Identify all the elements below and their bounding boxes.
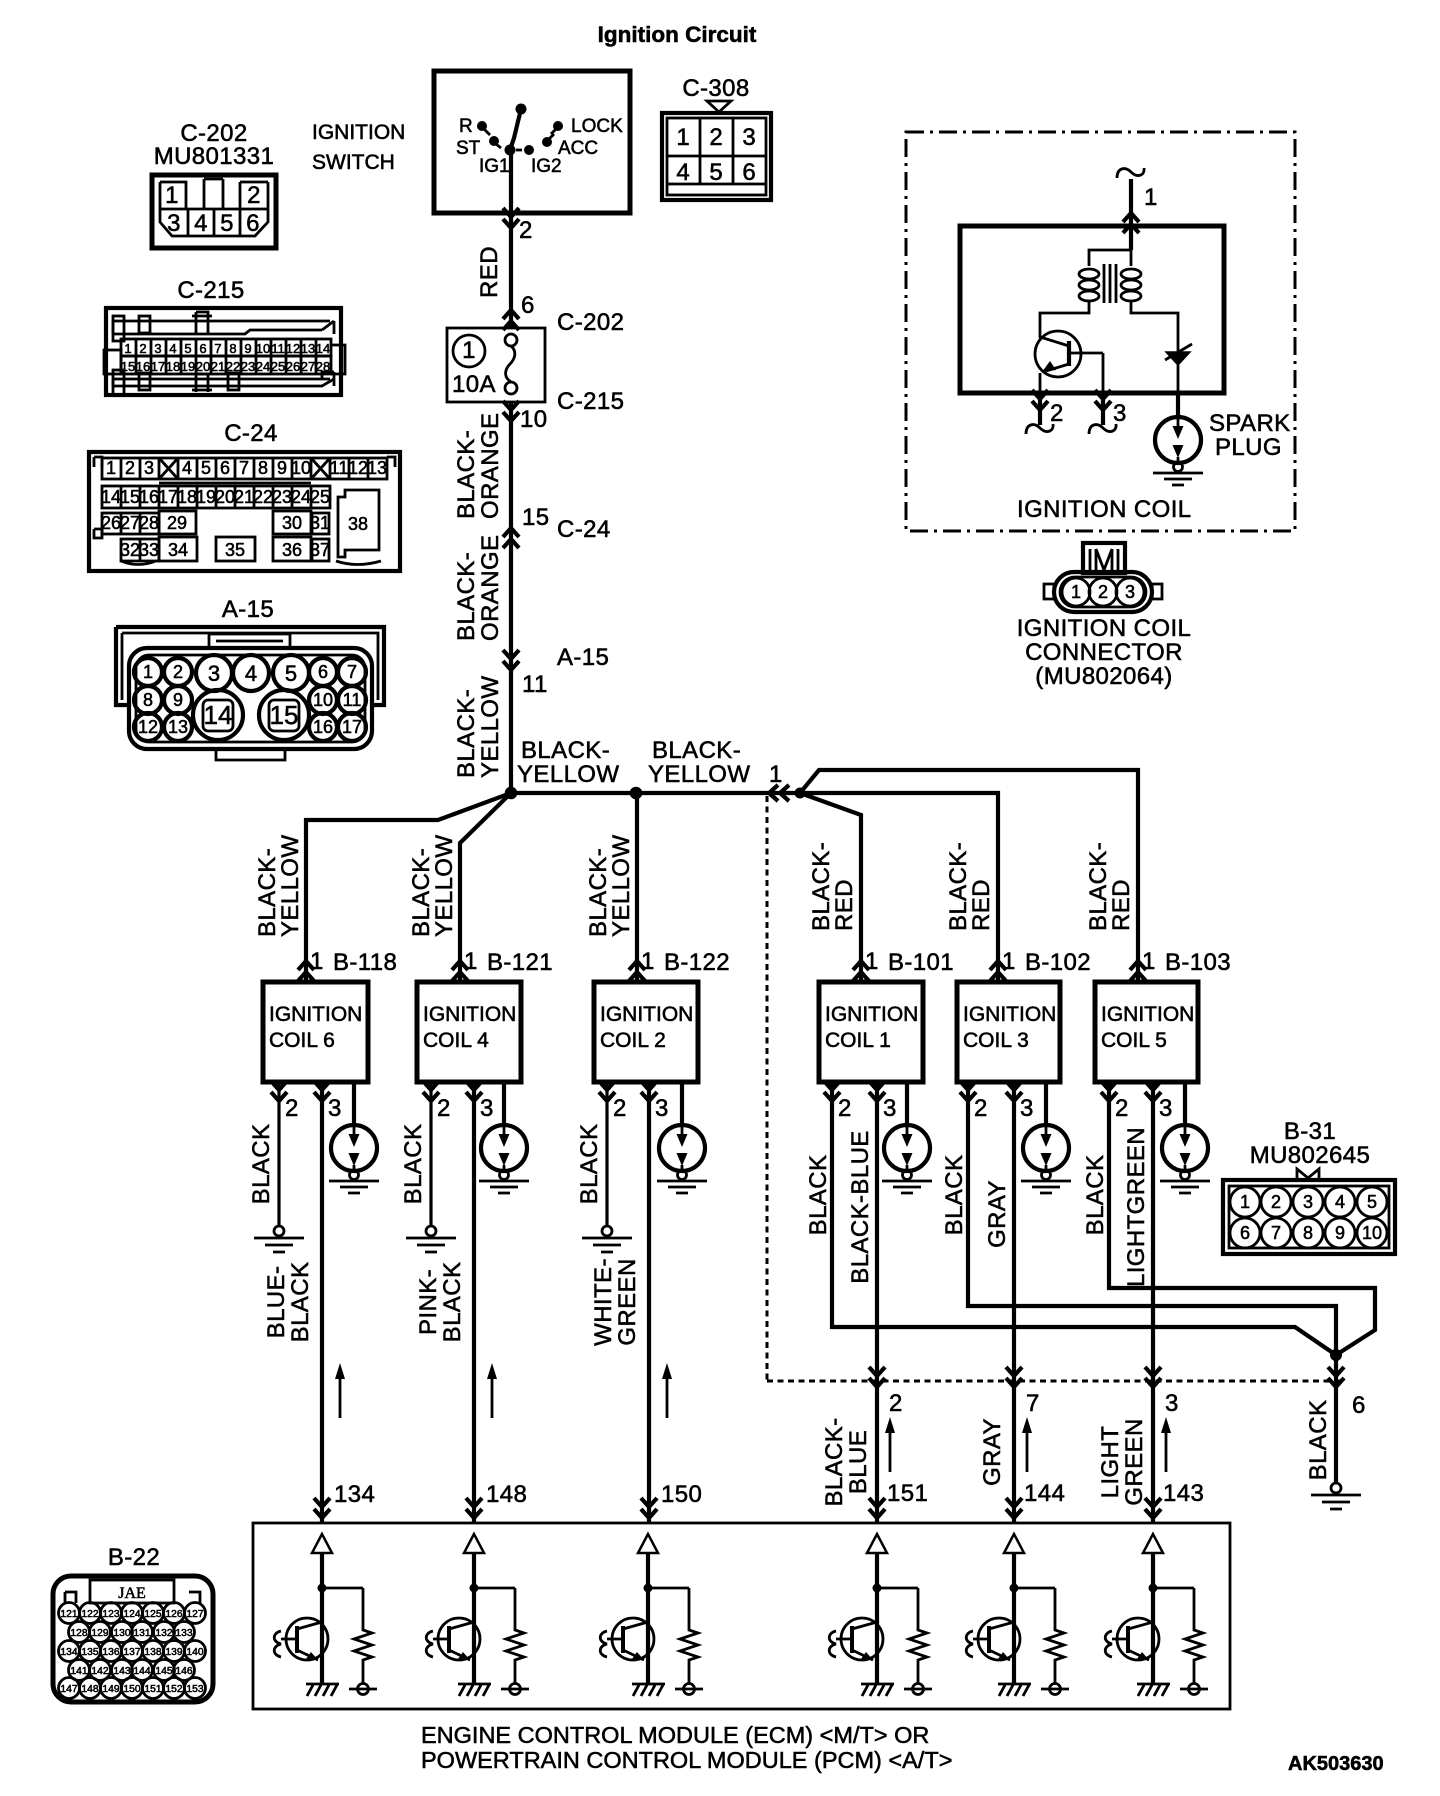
svg-text:YELLOW: YELLOW <box>477 676 504 778</box>
svg-text:149: 149 <box>102 1684 119 1695</box>
wire pin2 black to ground <box>277 1082 280 1225</box>
svg-text:133: 133 <box>175 1628 192 1639</box>
ignition coil 3 connector B-102 <box>990 961 1006 981</box>
svg-text:10: 10 <box>1362 1223 1382 1243</box>
svg-text:4: 4 <box>1335 1192 1345 1212</box>
svg-text:IGNITION: IGNITION <box>1101 1003 1194 1026</box>
connector C-215 body <box>104 308 345 395</box>
svg-text:JAE: JAE <box>118 1585 146 1602</box>
svg-text:COIL 4: COIL 4 <box>423 1029 489 1052</box>
svg-text:16: 16 <box>136 359 150 374</box>
svg-text:24: 24 <box>256 359 270 374</box>
svg-text:22: 22 <box>226 359 240 374</box>
svg-text:23: 23 <box>272 487 292 507</box>
svg-text:19: 19 <box>196 487 216 507</box>
svg-text:17: 17 <box>151 359 165 374</box>
svg-text:MU801331: MU801331 <box>154 143 275 170</box>
svg-text:11: 11 <box>522 671 548 698</box>
svg-text:2: 2 <box>519 217 533 244</box>
svg-text:134: 134 <box>334 1481 375 1508</box>
wire: fuse to junction, black-orange / black-yellow <box>509 402 513 793</box>
svg-text:121: 121 <box>60 1609 77 1620</box>
svg-text:148: 148 <box>81 1684 98 1695</box>
svg-text:141: 141 <box>70 1666 87 1677</box>
wire label BLACK-ORANGE <box>453 413 504 519</box>
svg-text:BLACK: BLACK <box>941 1155 968 1236</box>
wire pin3 black-blue to ECM 151 <box>875 1082 879 1523</box>
svg-text:C-215: C-215 <box>557 388 624 415</box>
svg-text:37: 37 <box>310 540 330 560</box>
svg-text:YELLOW: YELLOW <box>431 835 458 937</box>
svg-text:14: 14 <box>101 487 121 507</box>
svg-text:1: 1 <box>462 337 476 364</box>
svg-text:1: 1 <box>769 761 783 788</box>
svg-text:BLACK-BLUE: BLACK-BLUE <box>847 1130 874 1283</box>
svg-text:1: 1 <box>165 182 179 209</box>
svg-text:ST: ST <box>456 138 481 159</box>
svg-text:4: 4 <box>169 341 176 356</box>
svg-text:BLACK: BLACK <box>576 1124 603 1205</box>
svg-text:IGNITION: IGNITION <box>312 121 405 144</box>
svg-text:GRAY: GRAY <box>979 1418 1006 1486</box>
svg-text:5: 5 <box>709 159 722 186</box>
svg-text:R: R <box>459 116 473 137</box>
svg-text:1: 1 <box>464 948 478 975</box>
svg-text:A-15: A-15 <box>222 596 274 623</box>
svg-text:8: 8 <box>1303 1223 1313 1243</box>
svg-text:9: 9 <box>1335 1223 1345 1243</box>
wire pin2 black to ground <box>605 1082 608 1225</box>
svg-text:COIL 1: COIL 1 <box>825 1029 891 1052</box>
svg-text:14: 14 <box>204 700 233 730</box>
svg-text:2: 2 <box>613 1095 627 1122</box>
svg-text:11: 11 <box>343 690 362 710</box>
svg-text:5: 5 <box>1367 1192 1377 1212</box>
wire pin3 to ECM 150 <box>647 1082 651 1523</box>
svg-text:10: 10 <box>313 690 333 710</box>
svg-text:6: 6 <box>318 662 328 682</box>
wire pin3 to ECM 134 <box>320 1082 324 1523</box>
svg-text:123: 123 <box>102 1609 119 1620</box>
svg-text:142: 142 <box>91 1666 108 1677</box>
svg-text:2: 2 <box>247 182 261 209</box>
transformer T1 <box>1040 250 1178 345</box>
svg-text:C-202: C-202 <box>557 309 624 336</box>
svg-text:B-122: B-122 <box>664 949 730 976</box>
wire pin2 black to ground <box>429 1082 432 1225</box>
svg-text:20: 20 <box>196 359 210 374</box>
svg-text:IG2: IG2 <box>531 156 562 177</box>
svg-text:2: 2 <box>889 1390 903 1417</box>
wire: black-yellow bus <box>511 791 802 795</box>
connector C-308 body <box>662 113 771 200</box>
svg-text:2: 2 <box>139 341 146 356</box>
svg-text:30: 30 <box>282 513 302 533</box>
svg-text:26: 26 <box>101 513 121 533</box>
svg-text:5: 5 <box>285 661 297 686</box>
ignition coil detail dashed box <box>906 132 1295 531</box>
svg-text:SWITCH: SWITCH <box>312 151 395 174</box>
svg-text:BLACK-: BLACK- <box>652 737 741 764</box>
svg-text:27: 27 <box>120 513 140 533</box>
wire pin3 to ECM 148 <box>472 1082 476 1523</box>
svg-text:150: 150 <box>661 1481 702 1508</box>
ECM driver transistor circuit for pin wire at x=877 <box>829 1534 932 1696</box>
svg-text:MU802645: MU802645 <box>1250 1142 1371 1169</box>
svg-text:YELLOW: YELLOW <box>517 761 619 788</box>
svg-text:17: 17 <box>342 717 362 737</box>
svg-text:128: 128 <box>70 1628 87 1639</box>
svg-text:148: 148 <box>486 1481 527 1508</box>
svg-text:130: 130 <box>113 1628 130 1639</box>
svg-text:C-24: C-24 <box>224 420 278 447</box>
svg-text:29: 29 <box>167 513 187 533</box>
svg-text:10: 10 <box>291 458 311 478</box>
svg-text:31: 31 <box>310 513 330 533</box>
svg-text:4: 4 <box>676 159 689 186</box>
svg-text:11: 11 <box>271 341 285 356</box>
svg-text:1: 1 <box>1144 184 1158 211</box>
svg-text:BLACK-: BLACK- <box>453 430 480 519</box>
svg-text:1: 1 <box>1071 582 1081 602</box>
svg-text:POWERTRAIN CONTROL MODULE (PCM: POWERTRAIN CONTROL MODULE (PCM) <A/T> <box>421 1747 952 1773</box>
svg-text:16: 16 <box>313 717 333 737</box>
svg-text:36: 36 <box>282 540 302 560</box>
svg-text:25: 25 <box>271 359 285 374</box>
svg-text:6: 6 <box>742 159 755 186</box>
svg-text:B-118: B-118 <box>333 949 397 976</box>
svg-text:134: 134 <box>60 1647 77 1658</box>
spark plug of coil 2 <box>680 1082 684 1125</box>
svg-text:5: 5 <box>201 458 211 478</box>
ignition switch box <box>434 71 630 213</box>
svg-text:2: 2 <box>838 1095 852 1122</box>
svg-text:3: 3 <box>1113 400 1127 427</box>
svg-text:137: 137 <box>123 1647 140 1658</box>
svg-text:6: 6 <box>1240 1223 1250 1243</box>
svg-text:24: 24 <box>291 487 311 507</box>
ignition coil connector symbol <box>1044 543 1162 612</box>
wire pin3 lightgreen to ECM 143 <box>1151 1082 1155 1523</box>
svg-text:5: 5 <box>220 210 234 237</box>
svg-text:126: 126 <box>165 1609 182 1620</box>
svg-text:135: 135 <box>81 1647 98 1658</box>
svg-text:125: 125 <box>144 1609 161 1620</box>
transistor Q1 <box>1035 331 1103 393</box>
svg-text:131: 131 <box>133 1628 150 1639</box>
ground <box>1311 1483 1361 1509</box>
svg-text:IGNITION COIL: IGNITION COIL <box>1017 496 1192 523</box>
svg-text:RED: RED <box>476 246 503 298</box>
spark plug of coil 4 <box>502 1082 506 1125</box>
ignition coil 4 connector B-121 <box>452 961 468 981</box>
svg-text:7: 7 <box>239 458 249 478</box>
svg-text:6: 6 <box>220 458 230 478</box>
node junction 3 <box>795 788 806 799</box>
connector C-202 body <box>152 175 276 248</box>
zener diode D1 <box>1165 344 1192 393</box>
svg-text:3: 3 <box>1125 582 1135 602</box>
wire: switch pin 2 down to fuse <box>509 150 513 328</box>
ignition coil 6 connector B-118 <box>298 961 314 981</box>
svg-text:143: 143 <box>113 1666 130 1677</box>
svg-text:21: 21 <box>234 487 254 507</box>
svg-text:15: 15 <box>270 700 299 730</box>
svg-text:2: 2 <box>285 1095 299 1122</box>
svg-text:146: 146 <box>175 1666 192 1677</box>
svg-text:15: 15 <box>522 504 550 531</box>
svg-text:ENGINE CONTROL MODULE (ECM) <M: ENGINE CONTROL MODULE (ECM) <M/T> OR <box>421 1722 929 1748</box>
svg-text:BLACK: BLACK <box>1305 1400 1332 1481</box>
svg-text:6: 6 <box>246 210 260 237</box>
svg-text:2: 2 <box>125 458 135 478</box>
wire label BLACK-ORANGE <box>453 535 504 641</box>
svg-text:BLACK: BLACK <box>400 1124 427 1205</box>
svg-text:27: 27 <box>301 359 315 374</box>
svg-text:3: 3 <box>208 661 220 686</box>
svg-text:BLUE: BLUE <box>845 1430 872 1494</box>
connector C-24 body <box>89 452 400 571</box>
svg-text:BLACK-: BLACK- <box>453 689 480 778</box>
svg-text:B-31: B-31 <box>1284 1118 1336 1145</box>
svg-text:145: 145 <box>155 1666 172 1677</box>
svg-text:C-308: C-308 <box>682 75 749 102</box>
svg-text:150: 150 <box>123 1684 140 1695</box>
svg-text:3: 3 <box>144 458 154 478</box>
svg-text:BLACK: BLACK <box>805 1155 832 1236</box>
svg-text:8: 8 <box>229 341 236 356</box>
svg-text:6: 6 <box>521 292 535 319</box>
svg-text:3: 3 <box>1303 1192 1313 1212</box>
svg-text:38: 38 <box>348 514 368 534</box>
connector C-308 marker <box>707 101 731 112</box>
wire: branch to ignition coil 4 <box>460 793 511 982</box>
svg-text:(MU802064): (MU802064) <box>1035 663 1172 690</box>
svg-text:RED: RED <box>1108 879 1135 931</box>
svg-text:6: 6 <box>1352 1392 1366 1419</box>
connector B-22 body <box>53 1576 213 1702</box>
svg-text:1: 1 <box>1002 948 1016 975</box>
svg-text:BLUE-: BLUE- <box>263 1266 290 1339</box>
svg-text:3: 3 <box>883 1095 897 1122</box>
connector B-31 body <box>1223 1180 1395 1254</box>
wire: branch to ignition coil 3 <box>800 793 998 982</box>
svg-text:Ignition Circuit: Ignition Circuit <box>598 22 757 47</box>
svg-text:28: 28 <box>139 513 159 533</box>
svg-text:2: 2 <box>974 1095 988 1122</box>
ground <box>582 1226 632 1252</box>
svg-text:20: 20 <box>215 487 235 507</box>
svg-text:14: 14 <box>316 341 330 356</box>
svg-text:151: 151 <box>887 1480 928 1507</box>
svg-text:12: 12 <box>138 717 158 737</box>
svg-text:140: 140 <box>186 1647 203 1658</box>
svg-text:13: 13 <box>168 717 188 737</box>
svg-text:152: 152 <box>165 1684 182 1695</box>
svg-text:9: 9 <box>173 690 183 710</box>
svg-text:132: 132 <box>155 1628 172 1639</box>
svg-text:AK503630: AK503630 <box>1288 1753 1384 1775</box>
svg-text:PLUG: PLUG <box>1215 434 1282 461</box>
svg-text:11: 11 <box>330 458 349 478</box>
svg-text:122: 122 <box>81 1609 98 1620</box>
svg-text:LOCK: LOCK <box>571 116 623 137</box>
svg-text:1: 1 <box>865 948 879 975</box>
svg-text:BLACK-: BLACK- <box>521 737 610 764</box>
svg-text:13: 13 <box>301 341 315 356</box>
ECM box <box>253 1523 1230 1709</box>
connector B-31 marker <box>1297 1169 1319 1179</box>
svg-text:B-22: B-22 <box>108 1544 160 1571</box>
spark plug of coil 3 <box>1044 1082 1048 1125</box>
svg-text:1: 1 <box>106 458 116 478</box>
svg-text:COIL 6: COIL 6 <box>269 1029 335 1052</box>
svg-text:25: 25 <box>310 487 330 507</box>
svg-text:LIGHTGREEN: LIGHTGREEN <box>1123 1127 1150 1287</box>
svg-text:3: 3 <box>167 210 181 237</box>
ECM driver transistor circuit for pin wire at x=1153 <box>1105 1534 1208 1696</box>
svg-text:CONNECTOR: CONNECTOR <box>1025 639 1183 666</box>
ignition coil 1 connector B-101 <box>853 961 869 981</box>
svg-text:IGNITION: IGNITION <box>423 1003 516 1026</box>
svg-text:BLACK: BLACK <box>439 1262 466 1343</box>
svg-text:2: 2 <box>709 124 722 151</box>
connector A-15 body <box>116 627 384 760</box>
wire label BLACK-YELLOW horizontal 1 <box>517 737 619 788</box>
node junction 1 <box>505 787 518 800</box>
node junction 2 <box>630 787 643 800</box>
svg-text:138: 138 <box>144 1647 161 1658</box>
wire: branch to ignition coil 1 <box>800 793 861 982</box>
svg-text:PINK-: PINK- <box>415 1269 442 1335</box>
svg-text:B-103: B-103 <box>1165 949 1231 976</box>
svg-text:ACC: ACC <box>558 138 598 159</box>
svg-text:2: 2 <box>1098 582 1108 602</box>
svg-text:COIL 3: COIL 3 <box>963 1029 1029 1052</box>
svg-text:RED: RED <box>968 879 995 931</box>
svg-text:4: 4 <box>245 661 257 686</box>
svg-text:129: 129 <box>91 1628 108 1639</box>
ECM driver transistor circuit for pin wire at x=474 <box>426 1534 529 1696</box>
svg-text:7: 7 <box>347 662 357 682</box>
svg-text:1: 1 <box>124 341 131 356</box>
svg-text:2: 2 <box>437 1095 451 1122</box>
wire pin2 black <box>968 1082 1336 1355</box>
svg-text:153: 153 <box>186 1684 203 1695</box>
svg-text:B-101: B-101 <box>888 949 954 976</box>
svg-text:3: 3 <box>1165 1390 1179 1417</box>
wire: branch to ignition coil 6 <box>306 793 511 982</box>
svg-text:3: 3 <box>655 1095 669 1122</box>
spark plug SP <box>1153 417 1203 485</box>
ECM driver circuits <box>274 1534 1208 1696</box>
ignition coil 2 connector B-122 <box>629 961 645 981</box>
svg-text:7: 7 <box>1026 1390 1040 1417</box>
wire: branch to ignition coil 2 <box>635 793 639 982</box>
svg-text:3: 3 <box>1020 1095 1034 1122</box>
svg-text:10A: 10A <box>452 371 496 398</box>
svg-text:1: 1 <box>1142 948 1156 975</box>
svg-text:8: 8 <box>258 458 268 478</box>
svg-text:IGNITION: IGNITION <box>600 1003 693 1026</box>
svg-text:34: 34 <box>168 540 188 560</box>
svg-text:151: 151 <box>144 1684 161 1695</box>
ignition coil inner box U1 <box>960 226 1224 393</box>
svg-text:4: 4 <box>182 458 192 478</box>
svg-text:5: 5 <box>184 341 191 356</box>
svg-text:143: 143 <box>1163 1480 1204 1507</box>
svg-text:BLACK: BLACK <box>1082 1155 1109 1236</box>
svg-text:124: 124 <box>123 1609 140 1620</box>
svg-text:32: 32 <box>120 540 140 560</box>
svg-text:IG1: IG1 <box>479 156 510 177</box>
svg-text:23: 23 <box>241 359 255 374</box>
svg-text:2: 2 <box>1050 400 1064 427</box>
svg-text:WHITE-: WHITE- <box>590 1258 617 1346</box>
svg-text:IGNITION COIL: IGNITION COIL <box>1017 615 1192 642</box>
svg-text:YELLOW: YELLOW <box>648 761 750 788</box>
svg-text:19: 19 <box>181 359 195 374</box>
svg-text:12: 12 <box>348 458 368 478</box>
svg-text:1: 1 <box>641 948 655 975</box>
dashed variant line <box>767 796 1344 1381</box>
svg-text:15: 15 <box>121 359 135 374</box>
spark plug of coil 1 <box>905 1082 909 1125</box>
wire to spark plug <box>1176 393 1180 417</box>
svg-text:12: 12 <box>286 341 300 356</box>
svg-text:10: 10 <box>256 341 270 356</box>
svg-text:127: 127 <box>186 1609 203 1620</box>
spark plug of coil 6 <box>352 1082 356 1125</box>
svg-text:144: 144 <box>1024 1480 1065 1507</box>
wire black to ground <box>1334 1355 1338 1483</box>
svg-text:16: 16 <box>139 487 159 507</box>
svg-text:1: 1 <box>143 662 153 682</box>
svg-text:SPARK: SPARK <box>1209 410 1291 437</box>
svg-text:1: 1 <box>676 124 689 151</box>
svg-text:17: 17 <box>158 487 178 507</box>
svg-text:4: 4 <box>194 210 208 237</box>
wire pin3 gray to ECM 144 <box>1012 1082 1016 1523</box>
svg-text:144: 144 <box>133 1666 150 1677</box>
ECM driver transistor circuit for pin wire at x=648 <box>600 1534 703 1696</box>
svg-text:3: 3 <box>154 341 161 356</box>
svg-text:1: 1 <box>1240 1192 1250 1212</box>
svg-text:2: 2 <box>1271 1192 1281 1212</box>
wire: pin 1 into coil <box>1129 179 1133 250</box>
svg-text:A-15: A-15 <box>557 644 609 671</box>
svg-text:6: 6 <box>199 341 206 356</box>
svg-text:35: 35 <box>225 540 245 560</box>
svg-text:13: 13 <box>367 458 387 478</box>
coil pins 2,3 out of inner box <box>1040 393 1103 425</box>
svg-text:RED: RED <box>831 879 858 931</box>
svg-text:8: 8 <box>143 690 153 710</box>
svg-text:GREEN: GREEN <box>614 1258 641 1345</box>
svg-text:BLACK: BLACK <box>248 1124 275 1205</box>
svg-text:GREEN: GREEN <box>1121 1418 1148 1505</box>
svg-text:139: 139 <box>165 1647 182 1658</box>
ground <box>254 1226 304 1252</box>
wire: branch to ignition coil 5 <box>800 770 1138 982</box>
svg-text:21: 21 <box>211 359 225 374</box>
wire label BLACK-YELLOW horizontal 2 <box>648 737 750 788</box>
svg-text:3: 3 <box>328 1095 342 1122</box>
spark plug of coil 5 <box>1183 1082 1187 1125</box>
svg-text:YELLOW: YELLOW <box>277 835 304 937</box>
wire label BLACK-YELLOW <box>453 676 504 778</box>
svg-text:C-24: C-24 <box>557 516 611 543</box>
